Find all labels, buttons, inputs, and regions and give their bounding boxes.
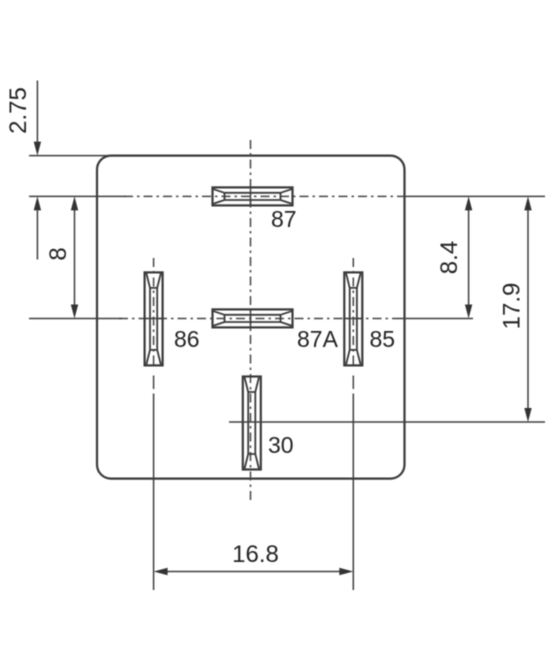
svg-text:87A: 87A [297, 326, 339, 352]
centerline solid segment through terminal 85 [343, 318, 363, 320]
extension line row 30 [229, 421, 545, 423]
centerline row 87 (dash-dot inside body) [124, 195, 404, 197]
label dimension 8 [45, 247, 72, 260]
terminal 85 blade [344, 272, 362, 365]
dimension 2.75 upper line with down arrow [34, 81, 41, 156]
extension line row 85 right [395, 318, 473, 320]
centerline solid segment through terminal 87 [250, 187, 252, 207]
vertical centerline through 87 87A 30 [250, 140, 252, 503]
label dimension 16.8 [232, 541, 279, 568]
extension line body top edge (left) [29, 155, 112, 157]
dimension line 8.4 with arrows [465, 196, 472, 318]
extension line row 87 right [404, 195, 545, 197]
extension line 16.8 left (below terminal 86) [153, 394, 155, 591]
label 86 [174, 326, 200, 352]
svg-text:2.75: 2.75 [5, 87, 32, 134]
extension line row 86 left [29, 318, 122, 320]
terminal 87A blade [213, 309, 293, 327]
extension line row 87 left [29, 195, 126, 197]
terminal 30 blade [243, 377, 261, 470]
svg-text:30: 30 [268, 432, 294, 458]
label dimension 2.75 [5, 87, 32, 134]
svg-text:17.9: 17.9 [498, 283, 525, 330]
svg-text:8.4: 8.4 [436, 241, 463, 274]
centerline terminal 86 vertical [153, 258, 155, 389]
dimension line 17.9 with arrows [524, 196, 531, 422]
label 30 [268, 432, 294, 458]
centerline solid segment through terminal 86 [144, 318, 164, 320]
extension line 16.8 right (below terminal 85) [352, 394, 354, 591]
label 87 [271, 206, 297, 232]
svg-text:85: 85 [370, 326, 396, 352]
terminal 87 blade [213, 187, 293, 205]
label dimension 8.4 [436, 241, 463, 274]
svg-text:86: 86 [174, 326, 200, 352]
centerline solid segment through terminal 87A [250, 309, 252, 329]
centerline row 86/87A/85 (dash-dot inside body) [119, 318, 395, 320]
label 87A [297, 326, 339, 352]
label dimension 17.9 [498, 283, 525, 330]
svg-text:87: 87 [271, 206, 297, 232]
svg-text:16.8: 16.8 [232, 541, 279, 568]
label 85 [370, 326, 396, 352]
relay body outline [97, 156, 405, 479]
svg-text:8: 8 [45, 247, 72, 260]
centerline terminal 85 vertical [352, 258, 354, 389]
dimension line 16.8 with arrows [154, 568, 354, 575]
dimension line 8 with arrows [71, 196, 78, 318]
dimension 2.75 lower line with up arrow [34, 196, 41, 259]
terminal 86 blade [145, 272, 163, 365]
